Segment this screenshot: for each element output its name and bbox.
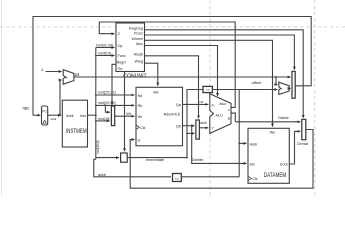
svg-text:Dwrite: Dwrite <box>192 157 204 162</box>
grid line vertical dashed right <box>314 0 316 196</box>
svg-text:<<: << <box>206 88 210 92</box>
grid line vertical left faint <box>1 0 3 196</box>
svg-text:<<: << <box>175 177 179 181</box>
wire offset down leg <box>238 90 240 177</box>
wire into DATAMEM Addr <box>239 142 246 144</box>
svg-text:Wmem: Wmem <box>132 37 144 41</box>
wire Pcsrc <box>145 35 295 70</box>
grid line horizontal dashed top <box>0 26 345 28</box>
junction p4 branch <box>275 76 277 78</box>
control unit CONUNIT <box>116 23 147 80</box>
svg-text:Din: Din <box>250 162 256 166</box>
svg-text:Reg2reg: Reg2reg <box>129 26 143 30</box>
wire Regrt <box>112 64 117 104</box>
shifter box offset <box>203 86 212 92</box>
svg-text:Se: Se <box>118 67 123 71</box>
svg-text:Wr: Wr <box>138 115 143 119</box>
wire addr drop <box>94 159 171 177</box>
svg-text:+: + <box>280 86 283 91</box>
svg-text:Inst: Inst <box>80 114 86 118</box>
junction bus rd <box>95 120 97 122</box>
wire Qa to ALU X <box>183 103 209 105</box>
svg-text:Dout: Dout <box>280 162 288 166</box>
svg-text:Addr: Addr <box>250 142 259 146</box>
wire ALU R out <box>231 113 235 122</box>
wire inst[5:0] to Func <box>96 55 115 57</box>
junction datamem addr branch <box>238 143 240 145</box>
svg-text:inst[25:21]: inst[25:21] <box>98 90 116 94</box>
wire inst[31:26] to Op <box>96 47 115 49</box>
svg-text:Daddr: Daddr <box>278 116 289 120</box>
svg-text:Op: Op <box>118 44 123 48</box>
wire qb down to Din <box>192 126 247 164</box>
svg-text:INSTMEM: INSTMEM <box>66 128 87 135</box>
wire regrt mux out Wr <box>114 115 134 117</box>
svg-text:DATAMEM: DATAMEM <box>264 172 287 179</box>
wire writeback to REGFILE D <box>130 130 313 189</box>
svg-text:Qb: Qb <box>176 124 181 128</box>
wire inst[20:16] down to mux <box>105 105 109 112</box>
junction alub in1 <box>186 133 188 135</box>
wire Inst to bus <box>88 114 96 116</box>
wire Reg2reg <box>145 30 304 118</box>
wire immediate to alub mux <box>187 132 195 134</box>
svg-text:ra: ra <box>200 100 204 104</box>
wire Aluc <box>145 46 218 97</box>
wire Qb to alub mux <box>183 125 195 127</box>
svg-text:Regrt: Regrt <box>117 60 126 64</box>
svg-text:inst[15:0]: inst[15:0] <box>96 140 100 153</box>
mux dread <box>302 119 306 139</box>
wire inst[20:16] to Rb <box>96 104 135 106</box>
junction bus func <box>95 55 97 57</box>
wire Z flag into conunit <box>99 22 235 107</box>
register PC <box>42 106 48 125</box>
svg-text:immediate: immediate <box>146 157 165 162</box>
wire Wmem <box>145 40 273 126</box>
wire Se <box>124 72 126 152</box>
svg-text:We: We <box>270 131 275 135</box>
wire p4 down to branch adder <box>276 77 277 85</box>
wire PC to INSTMEM Addr <box>48 114 61 116</box>
svg-text:CONUNIT: CONUNIT <box>123 74 147 80</box>
mux regrt <box>111 106 114 126</box>
junction regrt crossing <box>111 105 113 107</box>
wire bpc adder to npc mux <box>289 87 290 89</box>
junction qb branch <box>191 125 193 127</box>
svg-text:Pcsrc: Pcsrc <box>134 32 143 36</box>
svg-text:Wr: Wr <box>126 111 132 116</box>
svg-text:alub: alub <box>200 121 207 125</box>
adder branch <box>279 82 289 94</box>
svg-text:Addr: Addr <box>66 114 75 118</box>
sign extend box <box>121 153 128 162</box>
svg-text:inst[5:0]: inst[5:0] <box>98 51 111 55</box>
svg-text:offset: offset <box>252 80 263 85</box>
wire Dout up to dread mux <box>289 131 300 164</box>
junction daddr branch <box>238 121 240 123</box>
junction immediate branch <box>186 157 188 159</box>
junction bus ra <box>95 94 97 96</box>
wire npc into PC <box>33 114 40 116</box>
svg-text:R: R <box>228 117 231 121</box>
svg-text:ALU: ALU <box>216 113 224 117</box>
wire inst[25:21] to Ra <box>96 94 135 96</box>
wire alub mux out to ALU Y <box>199 127 208 129</box>
mux alub <box>196 120 200 139</box>
adder p4 <box>63 70 74 85</box>
junction bus rb <box>95 105 97 107</box>
svg-text:Rb: Rb <box>138 104 143 108</box>
register file REGFILE <box>136 87 183 146</box>
svg-text:inst[31:26]: inst[31:26] <box>96 43 114 47</box>
svg-text:addr: addr <box>51 117 57 121</box>
svg-text:Aluc: Aluc <box>136 42 143 46</box>
svg-text:npc: npc <box>23 106 31 111</box>
svg-text:inst[20:16]: inst[20:16] <box>98 101 116 105</box>
memory DATAMEM <box>248 128 289 183</box>
wire Aluqb <box>145 56 199 119</box>
junction pc-p4 <box>59 114 61 116</box>
svg-text:Aluc: Aluc <box>219 102 226 106</box>
wire Wreg <box>145 63 158 85</box>
svg-text:addr: addr <box>98 172 107 177</box>
wire 4 to adder <box>46 71 62 73</box>
svg-text:Clk: Clk <box>252 177 257 181</box>
grid line vertical dashed center <box>209 0 211 196</box>
wire immediate <box>127 157 187 159</box>
junction inst bus <box>95 114 97 116</box>
wire inst bus vertical <box>95 48 97 160</box>
svg-text:Func: Func <box>118 54 126 58</box>
wire Daddr to dread mux <box>235 121 300 123</box>
svg-text:REGFILE: REGFILE <box>164 111 181 116</box>
svg-text:Clk: Clk <box>140 126 145 130</box>
wire p4 bus <box>74 76 291 78</box>
junction inst[20:16] branch <box>105 105 107 107</box>
svg-text:D: D <box>138 138 141 142</box>
wire immediate up to offset shifter <box>187 90 203 158</box>
shifter box 2 bottom <box>173 174 182 182</box>
svg-text:PC: PC <box>42 109 47 113</box>
wire offset to branch adder <box>213 89 277 91</box>
mux npc <box>292 71 295 98</box>
wire imm to EXT <box>96 157 119 159</box>
wire pc up to adder <box>60 80 62 115</box>
svg-text:Aluqb: Aluqb <box>134 52 143 56</box>
memory INSTMEM <box>62 100 87 147</box>
wire inst[15:11] to mux <box>96 120 110 122</box>
svg-text:4: 4 <box>41 67 44 72</box>
wire bottom addr to shifter <box>182 176 239 178</box>
svg-text:Wreg: Wreg <box>134 60 143 64</box>
svg-text:Dread: Dread <box>297 141 308 146</box>
svg-text:We: We <box>153 90 158 94</box>
alu ALU <box>210 94 231 134</box>
wire npc loop top <box>33 17 311 116</box>
svg-text:p4: p4 <box>75 72 80 77</box>
svg-text:+: + <box>65 76 68 82</box>
